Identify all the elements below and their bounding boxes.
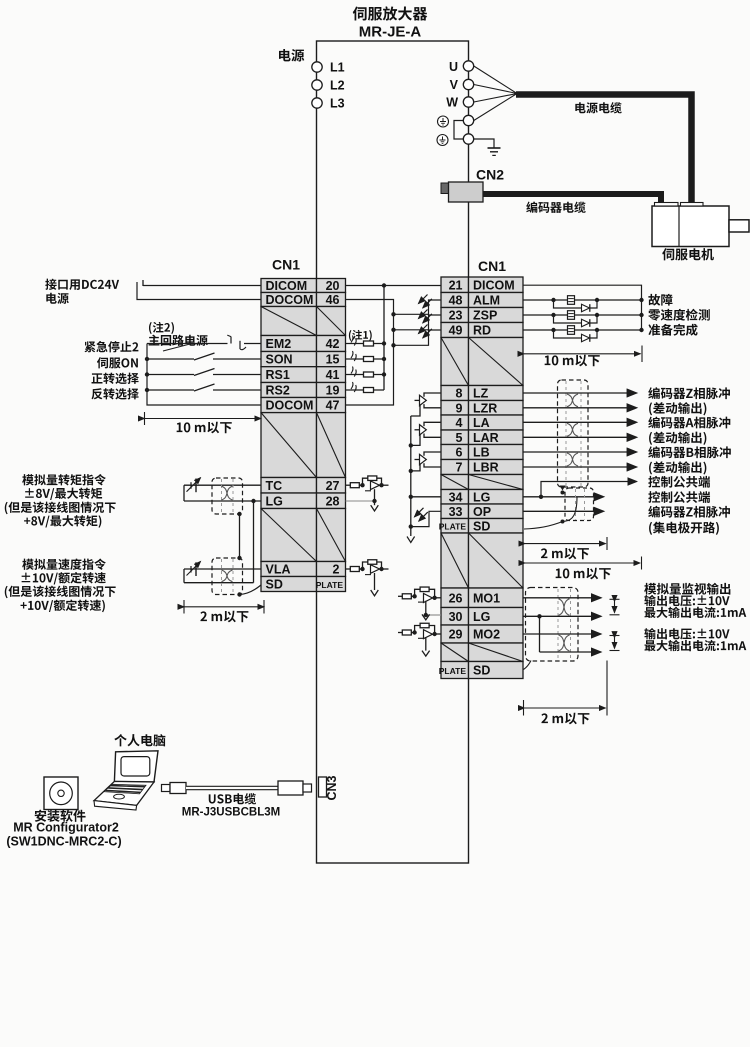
squiggle mark RS2 (351, 382, 356, 392)
svg-text:CN1: CN1 (272, 257, 300, 273)
flyback diode ZSP (554, 315, 598, 327)
svg-text:L1: L1 (330, 61, 345, 75)
svg-text:DOCOM: DOCOM (266, 399, 314, 413)
svg-text:46: 46 (326, 293, 340, 307)
wire encoder output LB (523, 451, 637, 453)
install software CD icon (44, 777, 78, 810)
shield box OP pair (565, 488, 594, 521)
wire LG30 lower output (540, 651, 601, 653)
label encoder Z open collector (648, 506, 730, 518)
wire W to cable joint (474, 94, 517, 103)
label install software (35, 810, 86, 822)
label LZR (649, 402, 706, 415)
servo motor shaft (729, 220, 749, 232)
dimension 2m max MO (524, 661, 608, 716)
power cable thick (516, 95, 692, 204)
junction ALM left (551, 298, 555, 302)
wire encoder output LZR (523, 407, 637, 409)
optocoupler OP wire (411, 511, 441, 526)
wire LG 28 (184, 500, 261, 502)
right CN1 spare cell (441, 338, 523, 386)
svg-text:MR Configurator2: MR Configurator2 (13, 821, 119, 835)
resistor input EM2 (364, 341, 374, 346)
junction driver bus 3 (409, 469, 413, 473)
junction driver bus 2 (409, 443, 413, 447)
relay coil ALM (568, 296, 575, 305)
svg-text:LB: LB (473, 446, 490, 460)
svg-text:LAR: LAR (473, 431, 499, 445)
label emergency stop 2 (84, 341, 138, 352)
label 2m max MO (541, 713, 589, 725)
protective earth symbol upper (438, 116, 449, 127)
servo motor power tab (681, 203, 704, 207)
op-amp buffer TC input (346, 476, 389, 511)
wire pin RS1 internal (346, 374, 385, 376)
wire earth bracket (454, 121, 463, 140)
label LA (648, 417, 730, 429)
terminal earth upper (463, 115, 473, 125)
svg-text:4: 4 (456, 416, 463, 430)
left CN1 spare cell (261, 307, 346, 336)
terminal U (463, 61, 473, 71)
wire OP shield drain (565, 497, 578, 522)
svg-text:ALM: ALM (473, 294, 500, 308)
dimension 10m max right (524, 346, 642, 363)
left CN1 pin RS2 19 (261, 383, 346, 398)
junction input bus RS2 (145, 388, 149, 392)
protective earth symbol lower (437, 135, 448, 146)
junction shield TC bottom (237, 512, 241, 516)
wire 33 OP output (523, 510, 604, 512)
svg-text:DOCOM: DOCOM (266, 293, 314, 307)
wire pin20 to pin21 DICOM link (346, 285, 442, 287)
label LBR (649, 461, 706, 474)
svg-text:LG: LG (473, 490, 490, 504)
junction shield boxB top (561, 491, 565, 495)
svg-text:5: 5 (456, 431, 463, 445)
dimension 10m max MO (525, 557, 642, 570)
connector CN2 body (449, 182, 484, 202)
svg-text:U: U (449, 60, 458, 74)
svg-text:W: W (446, 96, 458, 110)
svg-text:26: 26 (449, 591, 463, 605)
label personal computer (114, 734, 165, 746)
squiggle mark RS1 (351, 367, 356, 377)
wire pin EM2 internal (346, 343, 385, 345)
note 1 label (349, 330, 372, 341)
encoder cable thick (483, 194, 661, 203)
label analog torque command block (22, 474, 106, 485)
svg-text:2: 2 (333, 563, 340, 577)
laptop computer icon (94, 751, 158, 810)
switch RS1 contact (147, 369, 261, 376)
right CN1 pin PLATE SD (439, 662, 523, 679)
right CN1 pin 9 LZR (441, 401, 523, 416)
label analog speed command block (22, 559, 106, 570)
svg-text:CN3: CN3 (325, 775, 339, 800)
wire TC input (184, 484, 261, 486)
flyback diode RD (554, 330, 598, 342)
source torque command symbol (187, 478, 201, 493)
terminal earth lower (463, 134, 473, 144)
wire VLA return (184, 582, 254, 584)
wire pin SON internal (346, 358, 385, 360)
right CN1 spare cell (441, 533, 523, 588)
svg-text:RS2: RS2 (266, 384, 290, 398)
wire output RD (523, 329, 642, 331)
svg-text:LA: LA (473, 416, 490, 430)
wire LG to VLA return link (253, 501, 255, 583)
svg-text:MO2: MO2 (473, 628, 500, 642)
shield box TC twisted pair (212, 478, 243, 514)
wire pin RS2 internal (346, 389, 385, 391)
svg-text:PLATE: PLATE (316, 580, 344, 590)
terminal W (463, 97, 473, 107)
op-amp monitor MO1 (398, 587, 441, 620)
wire 34 LG output (523, 496, 604, 498)
right CN1 pin 5 LAR (441, 430, 523, 445)
label analog monitor output (644, 583, 730, 595)
svg-text:30: 30 (449, 610, 463, 624)
dimension 2m max left (184, 600, 264, 614)
svg-text:SD: SD (473, 519, 490, 533)
source speed command symbol (187, 562, 201, 577)
left CN1 pin SD PLATE (261, 577, 346, 592)
junction output bus RD (639, 328, 643, 332)
wire battery to pin 20 DICOM (143, 285, 261, 287)
svg-text:DICOM: DICOM (473, 278, 515, 292)
terminal L1 (312, 62, 322, 72)
label power supply dianyuan (279, 49, 304, 62)
optocoupler RD wire (394, 330, 442, 345)
DICOM internal bus (383, 286, 385, 391)
wire MO1 output (523, 597, 601, 599)
right CN1 pin 6 LB (441, 445, 523, 460)
line driver U1 wires (411, 393, 441, 416)
junction input bus SON (145, 357, 149, 361)
wire VLA input (184, 568, 261, 570)
wire U to cable joint (474, 66, 517, 94)
line driver U1 triangle (420, 395, 427, 405)
svg-text:SON: SON (266, 353, 293, 367)
svg-text:LG: LG (266, 494, 283, 508)
label servo amplifier title (353, 6, 428, 20)
note 2 label (149, 322, 174, 334)
wire TC return vertical (183, 485, 185, 501)
svg-text:19: 19 (326, 384, 340, 398)
wire output ALM (523, 299, 642, 301)
battery DC24V negative plate and wire to pin 46 DOCOM (137, 282, 261, 300)
label servo motor (662, 248, 714, 260)
encoder driver common bus (410, 416, 412, 536)
svg-text:LBR: LBR (473, 461, 499, 475)
label USB cable (209, 793, 256, 804)
op-amp monitor MO2 (398, 623, 441, 656)
right CN1 pin 49 RD (441, 323, 523, 338)
svg-text:TC: TC (266, 479, 283, 493)
wire shield to SD right (524, 522, 563, 530)
right CN1 pin 29 MO2 (441, 625, 523, 643)
svg-text:L2: L2 (330, 79, 345, 93)
resistor input SON (364, 357, 374, 362)
junction DOCOM bus ALM (391, 312, 395, 316)
dimension 2m max encoder (525, 537, 607, 550)
svg-text:LG: LG (473, 610, 490, 624)
servo motor divider (678, 206, 680, 247)
svg-text:CN2: CN2 (476, 167, 504, 183)
svg-text:EM2: EM2 (266, 337, 292, 351)
line driver U3 triangle (420, 454, 427, 464)
label main circuit power (149, 335, 208, 346)
svg-text:20: 20 (326, 279, 340, 293)
connector CN3 socket (319, 777, 327, 797)
servo motor encoder tab (655, 203, 679, 207)
junction OP shield (561, 520, 565, 524)
label power cable (575, 102, 621, 113)
USB cable connector left (162, 783, 187, 794)
squiggle mark SON (351, 351, 356, 361)
battery DC24V positive plate (142, 280, 144, 286)
svg-text:MR-JE-A: MR-JE-A (359, 23, 422, 40)
resistor input RS1 (364, 372, 374, 377)
shield box monitor outputs (526, 588, 579, 662)
label control common 1 (648, 476, 710, 488)
input common bus wire (147, 344, 261, 406)
voltmeter symbol MO2 (610, 636, 620, 651)
svg-text:6: 6 (456, 446, 463, 460)
optocoupler ZSP arrows (419, 310, 428, 319)
junction input bus RS1 (145, 372, 149, 376)
svg-text:42: 42 (326, 337, 340, 351)
right CN1 spare cell (441, 475, 523, 490)
junction bus 34 LG (409, 495, 413, 499)
wire control common upper (541, 482, 637, 497)
wire encoder output LBR (523, 466, 637, 468)
junction shield VLA top (237, 556, 241, 560)
label LB (648, 446, 731, 458)
right CN1 pin 4 LA (441, 415, 523, 430)
ground arrow encoder bus (407, 537, 415, 543)
svg-text:RS1: RS1 (266, 368, 290, 382)
op-amp buffer VLA input (346, 560, 389, 596)
wire LG30 branch (539, 616, 541, 652)
wire MO2 output (523, 633, 601, 635)
junction shield VLA bottom (237, 592, 241, 596)
junction DICOM bus SON (382, 357, 386, 361)
svg-text:SD: SD (266, 578, 283, 592)
right CN1 pin 48 ALM (441, 293, 523, 308)
line driver U2 wires (411, 422, 441, 445)
svg-text:29: 29 (449, 628, 463, 642)
switch EM2 emergency stop contact (147, 335, 261, 351)
left CN1 pin DOCOM 46 (261, 293, 346, 308)
svg-text:MR-J3USBCBL3M: MR-J3USBCBL3M (182, 807, 280, 819)
label interface DC24V power (45, 279, 119, 290)
optocoupler RD arrows (419, 325, 428, 334)
right CN1 pin 23 ZSP (441, 308, 523, 323)
svg-text:15: 15 (326, 353, 340, 367)
junction DOCOM bus RD (391, 343, 395, 347)
optocoupler ZSP wire (394, 315, 442, 330)
shield box encoder twisted pairs (558, 380, 589, 487)
svg-text:27: 27 (326, 479, 340, 493)
relay coil ZSP (568, 311, 575, 320)
label forward rotation selection (92, 373, 139, 384)
left CN1 pin TC 27 (261, 478, 346, 494)
right CN1 pin 34 LG (441, 490, 523, 505)
svg-text:VLA: VLA (266, 563, 291, 577)
switch SON contact (147, 353, 261, 360)
label output RD (648, 324, 697, 336)
junction RD right (595, 328, 599, 332)
svg-text:ZSP: ZSP (473, 309, 497, 323)
wire shield to SD MO (524, 661, 532, 670)
svg-text:23: 23 (449, 309, 463, 323)
svg-text:RD: RD (473, 324, 491, 338)
junction bus OP (409, 524, 413, 528)
optocoupler ALM arrows (419, 295, 428, 304)
junction ALM right (595, 298, 599, 302)
svg-text:LZR: LZR (473, 401, 497, 415)
line driver U2 triangle (420, 425, 427, 435)
wire earth to cable joint (474, 94, 517, 121)
junction DICOM bus RS1 (382, 372, 386, 376)
terminal L2 (312, 80, 322, 90)
wire earth to ground (474, 139, 494, 148)
svg-text:OP: OP (473, 505, 491, 519)
servo amplifier outline box (317, 41, 469, 863)
right CN1 pin 21 DICOM (441, 277, 523, 293)
right CN1 pin 8 LZ (441, 386, 523, 401)
label output ZSP (648, 309, 710, 321)
USB cable connector right (278, 781, 312, 795)
left CN1 pin DOCOM 47 (261, 398, 346, 413)
junction LG to VLA link (251, 499, 255, 503)
junction DICOM bus EM2 (382, 341, 386, 345)
label LAR (649, 432, 706, 445)
wire LG 30 output (523, 615, 601, 617)
right CN1 pin 33 OP (441, 504, 523, 519)
wire L1 stub (316, 66, 319, 68)
junction ZSP left (551, 313, 555, 317)
junction output bus ALM (639, 298, 643, 302)
label 10m max left (177, 422, 232, 434)
squiggle mark EM2 (351, 336, 356, 346)
wire shield link vertical (239, 514, 241, 558)
left CN1 pin VLA 2 (261, 562, 346, 577)
label 2m max encoder (541, 548, 589, 560)
junction DOCOM bus ZSP (391, 328, 395, 332)
wire V to cable joint (474, 85, 517, 94)
svg-text:9: 9 (456, 401, 463, 415)
left CN1 pin LG 28 (261, 493, 346, 509)
left CN1 pin RS1 41 (261, 367, 346, 383)
shield box VLA twisted pair (212, 558, 243, 595)
svg-text:7: 7 (456, 461, 463, 475)
junction ZSP right (595, 313, 599, 317)
shield arrow box A to box B (560, 486, 566, 491)
wire output ZSP (523, 314, 642, 316)
servo motor body (652, 206, 729, 247)
dimension 10m max left (145, 412, 262, 425)
label 2m max left (200, 611, 248, 623)
USB cable line (186, 786, 278, 791)
wire encoder output LAR (523, 436, 637, 438)
junction 34 LG (539, 495, 543, 499)
relay coil RD (568, 326, 575, 335)
ground symbol earth (488, 148, 501, 155)
svg-text:49: 49 (449, 324, 463, 338)
label reverse rotation selection (91, 388, 138, 399)
label control common 2 (648, 491, 710, 503)
switch RS2 contact (147, 384, 261, 391)
svg-text:(SW1DNC-MRC2-C): (SW1DNC-MRC2-C) (6, 835, 121, 849)
right CN1 pin 7 LBR (441, 460, 523, 475)
terminal L3 (312, 98, 322, 108)
svg-text:LZ: LZ (473, 387, 489, 401)
svg-text:41: 41 (326, 368, 340, 382)
wire VLA return vertical (183, 569, 185, 583)
junction DICOM bus (382, 283, 386, 287)
label output ALM (648, 294, 672, 306)
left CN1 pin EM2 42 (261, 336, 346, 352)
label 10m max MO (556, 568, 611, 580)
right CN1 pin 26 MO1 (441, 588, 523, 608)
voltmeter symbol MO1 (610, 599, 620, 615)
wire encoder output LA (523, 421, 637, 423)
svg-text:34: 34 (449, 490, 463, 504)
svg-text:PLATE: PLATE (439, 666, 467, 676)
svg-text:47: 47 (326, 399, 340, 413)
left CN1 spare cell (261, 413, 346, 478)
svg-text:28: 28 (326, 494, 340, 508)
svg-text:L3: L3 (330, 97, 345, 111)
svg-text:8: 8 (456, 387, 463, 401)
svg-text:V: V (450, 78, 459, 92)
terminal V (463, 79, 473, 89)
label servo ON (97, 357, 138, 368)
svg-text:CN1: CN1 (478, 258, 506, 274)
flyback diode ALM (554, 300, 598, 312)
svg-text:PLATE: PLATE (439, 522, 467, 532)
svg-text:MO1: MO1 (473, 591, 500, 605)
line driver U3 wires (411, 452, 441, 471)
label LZ (648, 387, 730, 399)
label 10m max right (545, 355, 600, 367)
left CN1 spare cell (261, 509, 346, 562)
resistor input RS2 (364, 388, 374, 393)
right CN1 spare cell (441, 643, 523, 662)
label encoder cable (526, 202, 585, 213)
svg-text:33: 33 (449, 505, 463, 519)
optocoupler ALM wire (394, 300, 442, 314)
right CN1 pin PLATE SD (439, 519, 523, 534)
left CN1 pin SON 15 (261, 352, 346, 367)
wire 34 LG to bus (411, 496, 441, 498)
connector CN2 tab (441, 183, 449, 194)
svg-text:SD: SD (473, 664, 490, 678)
wire pin46 DOCOM internal (346, 300, 394, 406)
optocoupler OP arrows (415, 508, 424, 517)
junction output bus ZSP (639, 313, 643, 317)
wire 21 DICOM to output bus (523, 285, 642, 330)
wire encoder output LZ (523, 392, 637, 394)
svg-text:21: 21 (449, 278, 463, 292)
wire shield to SD plate (240, 585, 262, 595)
junction RD left (551, 328, 555, 332)
left CN1 pin DICOM 20 (261, 279, 346, 294)
svg-text:48: 48 (449, 294, 463, 308)
